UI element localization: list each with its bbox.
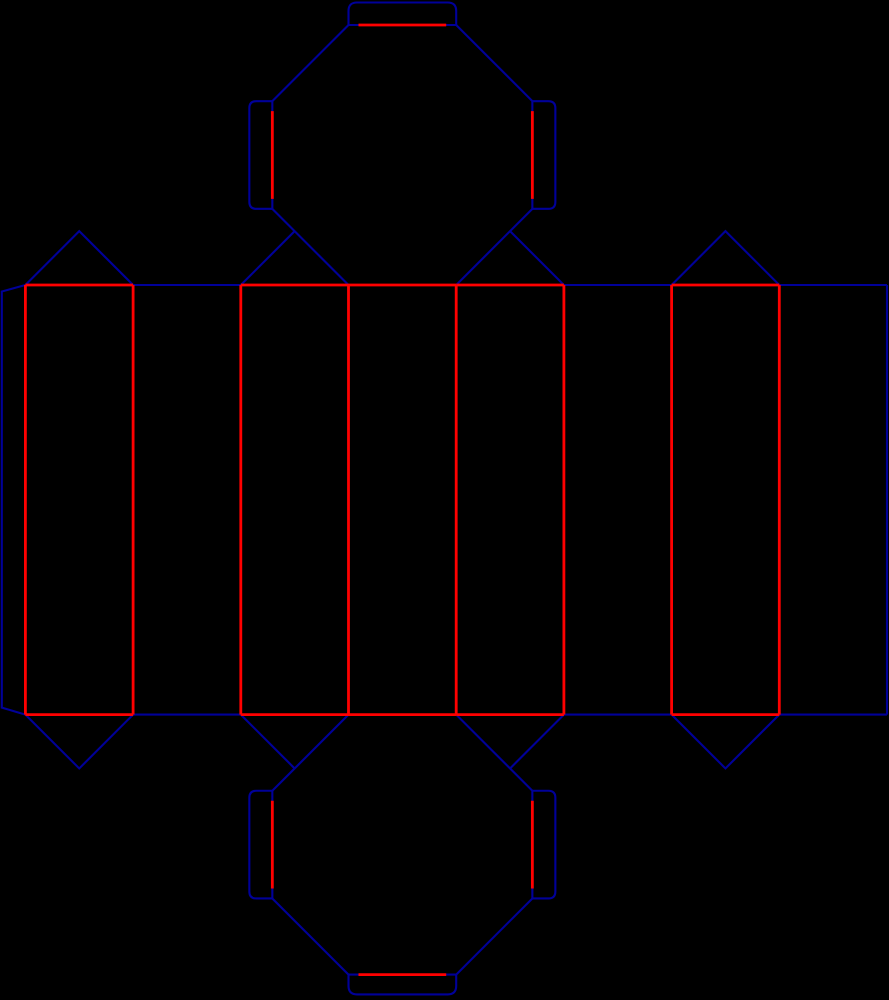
cut line: top octagon lower-left slant side [272,209,348,285]
fold line: vertical crease at x=348.5 (panel 4 left edge) [347,285,350,715]
cut line: right edge of panel 8 [886,285,888,715]
cut line: panel 2 bottom edge [133,714,241,716]
cut line: rounded glue tab below bottom octagon [349,975,457,995]
cut line: triangle tab above panel 7 [672,231,780,285]
cut line: triangle tab above panel 1 [25,231,133,285]
fold line: panel 3 bottom edge [241,713,349,716]
fold line: vertical crease at x=779.3 (panel 8 left edge) [778,285,781,715]
cut line: top octagon upper-left slant side [272,25,348,101]
cut line: top octagon left vertical side (tab base caps) [271,101,273,209]
fold line: top octagon left side [271,111,274,199]
cut line: bottom octagon upper-right slant side [456,715,532,791]
fold line: panel 5 bottom edge [456,713,564,716]
fold line: vertical crease at x=133.1 (panel 2 left edge) [132,285,135,715]
cut line: rounded glue tab above top octagon [349,2,457,25]
cut line: rounded glue tab left of bottom octagon [249,791,272,899]
cut line: panel 8 bottom edge [779,714,887,716]
fold line: panel 7 top edge [672,284,780,287]
fold line: panel 1 top edge [25,284,133,287]
fold line: bottom octagon bottom side [359,973,447,976]
cut line: half-triangle tab above panel 5 [510,231,564,285]
cut line: top octagon upper-right slant side [456,25,532,101]
fold line: panel 7 bottom edge [672,713,780,716]
fold line: top octagon top side [359,24,447,27]
cut line: top octagon lower-right slant side [456,209,532,285]
fold line: panel 5 top edge [456,284,564,287]
fold line: vertical crease at x=240.8 (panel 3 left edge) [239,285,242,715]
cut line: panel 6 top edge [564,284,672,286]
cut line: bottom octagon right vertical side (tab base caps) [531,791,533,899]
cut line: half-triangle tab below panel 3 [241,715,295,769]
fold line: panel 1 bottom edge [25,713,133,716]
cut line: bottom octagon upper-left slant side [272,715,348,791]
fold line: panel 4 bottom edge [349,713,457,716]
fold line: panel 3 top edge [241,284,349,287]
cut line: rounded glue tab left of top octagon [249,101,272,209]
fold line: bottom octagon right side [531,801,534,889]
cut line: panel 8 top edge [779,284,887,286]
fold line: vertical crease at x=671.6 (panel 7 left edge) [670,285,673,715]
fold line: vertical crease at x=456.2 (panel 5 left edge) [455,285,458,715]
cut line: bottom octagon bottom side (tab base caps) [349,974,457,976]
fold line: vertical crease at x=25.4 (panel 1 left edge) [24,285,27,715]
cut line: triangle tab below panel 7 [672,715,780,769]
fold line: bottom octagon left side [271,801,274,889]
cut line: triangle tab below panel 1 [25,715,133,769]
cut line: bottom octagon lower-right slant side [456,898,532,974]
cut line: top octagon right vertical side (tab base caps) [531,101,533,209]
cut line: bottom octagon lower-left slant side [272,898,348,974]
cut line: top octagon top side (tab base caps) [349,24,457,26]
cut line: rounded glue tab right of bottom octagon [532,791,555,899]
fold line: vertical crease at x=563.9 (panel 6 left edge) [563,285,566,715]
fold line: panel 4 top edge [349,284,457,287]
cut line: panel 2 top edge [133,284,241,286]
cut line: panel 6 bottom edge [564,714,672,716]
cut line: left glue flap outline [2,285,26,715]
cut line: bottom octagon left vertical side (tab base caps) [271,791,273,899]
cut line: rounded glue tab right of top octagon [532,101,555,209]
fold line: top octagon right side [531,111,534,199]
cut line: half-triangle tab above panel 3 [241,231,295,285]
cut line: half-triangle tab below panel 5 [510,715,564,769]
